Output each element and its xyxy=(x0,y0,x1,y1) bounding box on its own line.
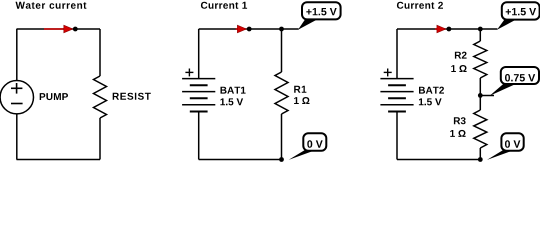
callout 0.75 V (circuit3) xyxy=(490,67,540,96)
label RESIST xyxy=(113,93,151,100)
wire: circuit1 top xyxy=(17,28,101,30)
wire: circuit1 left (bottom segment) xyxy=(16,114,18,160)
resistor R3 zigzag xyxy=(474,110,487,148)
wire: circuit3 branch between R2 and node xyxy=(479,78,481,95)
wire: circuit3 top xyxy=(397,28,497,30)
wire: circuit3 left (to battery) xyxy=(396,29,398,79)
resistor R2 zigzag xyxy=(474,41,487,78)
node dot circuit2 bottom xyxy=(279,157,284,162)
node dot circuit3 bottom xyxy=(478,157,483,162)
node dot circuit3 top branch xyxy=(478,27,483,32)
wire: circuit3 left below battery xyxy=(396,112,398,160)
wire: circuit3 bottom xyxy=(397,159,482,161)
title: Current 2 xyxy=(397,2,443,9)
current arrow (red) circuit3 xyxy=(435,25,446,33)
wire: circuit3 right branch below R3 xyxy=(479,148,481,160)
label 1.5 V (BAT1) xyxy=(220,98,243,105)
label BAT1 xyxy=(221,87,246,94)
wire: circuit1 right (top segment) xyxy=(99,29,101,76)
wire: circuit2 right branch below R1 xyxy=(281,114,283,160)
current arrow (red) circuit2 xyxy=(236,25,247,33)
wire: circuit1 left (top segment) xyxy=(16,29,18,81)
label R2 xyxy=(455,52,467,59)
wire: circuit3 right branch above R2 xyxy=(479,29,481,41)
wire: circuit2 bottom xyxy=(199,159,283,161)
label PUMP xyxy=(40,93,68,100)
callout +1.5 V (circuit2) xyxy=(298,2,341,30)
title: Water current xyxy=(16,2,87,9)
wire: stub from middle node to callout xyxy=(480,95,494,97)
node dot circuit2 top branch xyxy=(279,27,284,32)
wire: circuit1 right (bottom segment) xyxy=(99,118,101,160)
label R3 xyxy=(454,117,466,124)
wire: circuit2 right branch above R1 xyxy=(281,29,283,72)
node dot circuit3 after arrow xyxy=(447,27,452,32)
resistor R1 zigzag xyxy=(275,72,288,114)
battery BAT1 xyxy=(182,69,215,112)
pump source (circle with + -) P1 xyxy=(0,81,33,114)
label 1.5 V (BAT2) xyxy=(419,98,442,105)
label 1 ohm (R3) xyxy=(450,130,465,137)
node dot circuit3 middle xyxy=(478,93,483,98)
callout 0 V (circuit2) xyxy=(289,133,327,160)
wire: circuit2 top xyxy=(199,28,299,30)
label 1 ohm (R2) xyxy=(451,65,466,72)
battery BAT2 xyxy=(380,69,413,112)
label BAT2 xyxy=(419,87,444,94)
label 1 ohm (R1) xyxy=(294,97,309,104)
callout 0 V (circuit3) xyxy=(487,133,524,160)
node dot circuit2 after arrow xyxy=(247,27,252,32)
node dot circuit1 top xyxy=(73,27,78,32)
label R1 xyxy=(294,86,306,93)
current arrow (red) circuit1 xyxy=(44,25,73,33)
wire: circuit1 bottom xyxy=(17,159,101,161)
resistor RESIST zigzag xyxy=(94,76,107,118)
wire: circuit2 left below battery xyxy=(198,112,200,160)
title: Current 1 xyxy=(201,2,247,9)
wire: circuit2 left (to battery) xyxy=(198,29,200,79)
wire: circuit3 branch between node and R3 xyxy=(479,95,481,110)
callout +1.5 V (circuit3) xyxy=(497,2,540,30)
